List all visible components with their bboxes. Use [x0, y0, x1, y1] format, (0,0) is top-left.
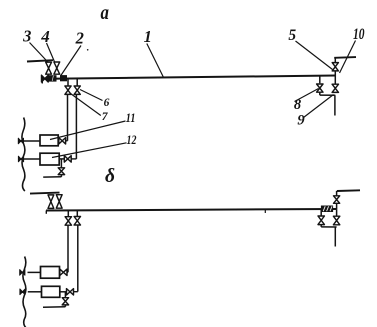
svg-text:7: 7 [102, 111, 109, 123]
svg-text:9: 9 [297, 112, 304, 128]
svg-text:10: 10 [353, 26, 365, 43]
svg-text:а: а [101, 0, 109, 24]
svg-text:11: 11 [126, 111, 136, 125]
svg-text:1: 1 [144, 27, 152, 46]
svg-text:3: 3 [22, 26, 31, 45]
svg-text:4: 4 [40, 27, 50, 46]
svg-text:12: 12 [127, 133, 137, 147]
svg-text:2: 2 [75, 29, 84, 48]
svg-text:5: 5 [288, 27, 296, 44]
svg-text:δ: δ [105, 166, 115, 187]
svg-text:8: 8 [294, 97, 302, 113]
svg-text:6: 6 [104, 97, 110, 109]
